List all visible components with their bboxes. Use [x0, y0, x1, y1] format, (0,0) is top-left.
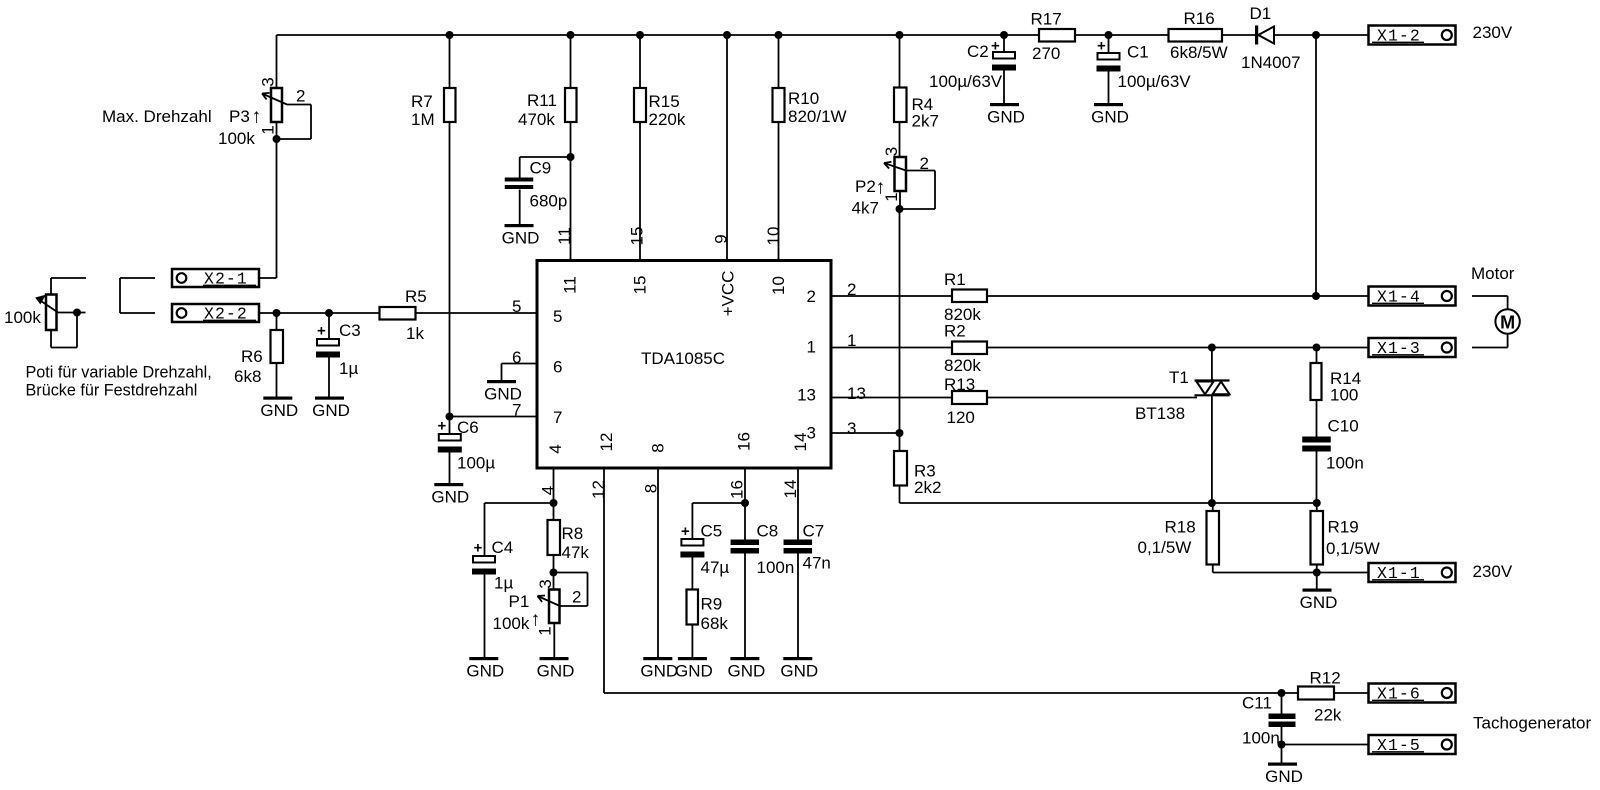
svg-text:C7: C7 [803, 522, 825, 541]
svg-text:R5: R5 [405, 287, 427, 306]
svg-text:GND: GND [466, 662, 504, 681]
svg-text:GND: GND [1300, 593, 1338, 612]
svg-text:6: 6 [553, 358, 562, 377]
svg-text:1k: 1k [406, 324, 424, 343]
svg-text:820/1W: 820/1W [788, 107, 847, 126]
svg-text:470k: 470k [518, 110, 555, 129]
svg-text:C5: C5 [701, 522, 723, 541]
svg-text:R18: R18 [1165, 518, 1196, 537]
svg-text:15: 15 [631, 276, 650, 295]
svg-text:+: + [438, 418, 447, 435]
svg-text:13: 13 [847, 384, 866, 403]
svg-text:R11: R11 [527, 91, 557, 110]
svg-text:C9: C9 [530, 159, 552, 178]
svg-text:GND: GND [502, 229, 540, 248]
svg-text:1: 1 [807, 338, 816, 357]
svg-text:↑: ↑ [252, 106, 262, 128]
svg-text:3: 3 [882, 147, 901, 156]
svg-text:7: 7 [553, 408, 562, 427]
svg-text:C1: C1 [1127, 43, 1149, 62]
svg-text:230V: 230V [1473, 562, 1513, 581]
svg-text:GND: GND [640, 662, 678, 681]
svg-text:11: 11 [555, 227, 574, 245]
svg-text:R2: R2 [944, 322, 966, 341]
svg-text:220k: 220k [649, 110, 686, 129]
svg-text:3: 3 [536, 579, 555, 588]
svg-text:R8: R8 [562, 524, 584, 543]
svg-text:C3: C3 [339, 321, 361, 340]
svg-text:C10: C10 [1328, 417, 1359, 436]
svg-text:GND: GND [312, 401, 350, 420]
svg-text:16: 16 [735, 432, 754, 451]
svg-text:+: + [317, 323, 326, 340]
svg-text:X2-1: X2-1 [204, 270, 248, 289]
svg-text:R1: R1 [944, 270, 966, 289]
svg-text:14: 14 [791, 433, 810, 452]
svg-text:120: 120 [947, 408, 975, 427]
svg-text:2: 2 [296, 87, 305, 106]
svg-text:TDA1085C: TDA1085C [641, 349, 725, 368]
svg-text:GND: GND [537, 662, 575, 681]
svg-text:7: 7 [512, 401, 521, 420]
svg-text:100k: 100k [493, 614, 530, 633]
svg-text:+: + [1097, 38, 1106, 55]
svg-text:GND: GND [728, 662, 766, 681]
svg-text:Tachogenerator: Tachogenerator [1473, 714, 1591, 733]
svg-text:+VCC: +VCC [719, 271, 738, 317]
svg-text:GND: GND [431, 488, 469, 507]
svg-text:5: 5 [553, 307, 562, 326]
svg-text:X1-6: X1-6 [1377, 685, 1421, 704]
svg-text:3: 3 [259, 77, 278, 86]
svg-text:100: 100 [1330, 386, 1358, 405]
svg-text:820k: 820k [944, 356, 981, 375]
svg-text:2: 2 [847, 280, 856, 299]
svg-text:T1: T1 [1169, 368, 1189, 387]
svg-text:M: M [1500, 313, 1515, 333]
svg-text:X1-4: X1-4 [1377, 288, 1421, 307]
svg-text:Poti für variable Drehzahl,: Poti für variable Drehzahl, [26, 364, 212, 382]
svg-text:C6: C6 [457, 418, 479, 437]
svg-text:R16: R16 [1184, 9, 1215, 28]
svg-text:X1-5: X1-5 [1377, 736, 1421, 755]
svg-text:X1-2: X1-2 [1377, 27, 1421, 46]
svg-text:16: 16 [728, 480, 747, 499]
svg-text:1: 1 [882, 192, 901, 201]
svg-text:Motor: Motor [1471, 264, 1515, 283]
svg-text:+: + [681, 523, 690, 540]
svg-text:680p: 680p [530, 192, 568, 211]
svg-text:R19: R19 [1328, 518, 1359, 537]
svg-text:13: 13 [797, 386, 816, 405]
svg-text:GND: GND [675, 662, 713, 681]
svg-text:12: 12 [597, 433, 616, 452]
svg-text:47n: 47n [803, 554, 831, 573]
svg-text:R17: R17 [1031, 10, 1062, 29]
svg-text:GND: GND [260, 401, 298, 420]
svg-text:BT138: BT138 [1135, 404, 1185, 423]
svg-text:1µ: 1µ [339, 359, 358, 378]
svg-text:8: 8 [649, 443, 668, 452]
svg-text:P3: P3 [229, 107, 250, 126]
svg-text:GND: GND [780, 662, 818, 681]
svg-text:1: 1 [536, 626, 555, 635]
svg-text:Max. Drehzahl: Max. Drehzahl [102, 107, 212, 126]
svg-text:6: 6 [512, 348, 521, 367]
svg-text:P2: P2 [855, 177, 876, 196]
svg-text:1N4007: 1N4007 [1241, 53, 1301, 72]
svg-text:D1: D1 [1250, 4, 1272, 23]
svg-text:X2-2: X2-2 [204, 305, 248, 324]
svg-text:4: 4 [546, 444, 565, 453]
svg-text:100µ: 100µ [457, 454, 495, 473]
svg-text:R6: R6 [241, 347, 263, 366]
svg-text:12: 12 [589, 480, 608, 499]
svg-text:100k: 100k [4, 308, 41, 327]
svg-text:2: 2 [807, 287, 816, 306]
svg-text:Brücke für Festdrehzahl: Brücke für Festdrehzahl [26, 382, 198, 400]
svg-text:11: 11 [561, 276, 580, 294]
svg-text:R10: R10 [788, 89, 819, 108]
svg-text:1µ: 1µ [494, 574, 513, 593]
svg-text:15: 15 [628, 227, 647, 246]
svg-text:4k7: 4k7 [852, 199, 879, 218]
svg-text:9: 9 [712, 234, 731, 243]
svg-text:2: 2 [572, 588, 581, 607]
svg-text:R9: R9 [701, 595, 723, 614]
svg-text:R13: R13 [944, 375, 975, 394]
svg-text:2k2: 2k2 [914, 478, 941, 497]
svg-text:68k: 68k [701, 614, 729, 633]
svg-text:2k7: 2k7 [912, 112, 939, 131]
svg-text:10: 10 [769, 276, 788, 295]
svg-text:GND: GND [1265, 767, 1303, 785]
svg-text:100µ/63V: 100µ/63V [929, 72, 1003, 91]
svg-text:8: 8 [642, 484, 661, 493]
svg-text:C8: C8 [757, 522, 779, 541]
svg-text:R12: R12 [1310, 669, 1341, 688]
svg-text:R15: R15 [649, 92, 680, 111]
svg-text:C2: C2 [967, 42, 989, 61]
svg-text:C11: C11 [1242, 694, 1272, 713]
svg-text:100n: 100n [757, 558, 795, 577]
svg-text:1M: 1M [411, 110, 435, 129]
svg-text:22k: 22k [1314, 706, 1342, 725]
svg-text:5: 5 [512, 297, 521, 316]
svg-text:100µ/63V: 100µ/63V [1118, 72, 1192, 91]
svg-text:C4: C4 [492, 538, 514, 557]
svg-text:GND: GND [987, 108, 1025, 127]
svg-text:P1: P1 [509, 592, 530, 611]
svg-text:2: 2 [920, 154, 929, 173]
svg-text:GND: GND [1091, 108, 1129, 127]
svg-text:47µ: 47µ [701, 558, 730, 577]
svg-text:14: 14 [781, 480, 800, 499]
svg-text:47k: 47k [562, 543, 590, 562]
svg-text:+: + [991, 38, 1000, 55]
svg-text:100k: 100k [218, 129, 255, 148]
svg-text:1: 1 [259, 125, 278, 134]
svg-text:100n: 100n [1242, 729, 1280, 748]
svg-text:3: 3 [847, 419, 856, 438]
svg-text:10: 10 [764, 227, 783, 246]
svg-text:X1-1: X1-1 [1377, 564, 1421, 583]
svg-text:6k8/5W: 6k8/5W [1170, 43, 1228, 62]
svg-text:100n: 100n [1326, 454, 1364, 473]
svg-text:6k8: 6k8 [234, 367, 261, 386]
svg-text:0,1/5W: 0,1/5W [1138, 538, 1192, 557]
svg-text:0,1/5W: 0,1/5W [1326, 539, 1380, 558]
svg-text:X1-3: X1-3 [1377, 339, 1421, 358]
svg-text:+: + [474, 540, 483, 557]
svg-text:4: 4 [539, 486, 558, 495]
svg-text:270: 270 [1032, 44, 1060, 63]
svg-text:230V: 230V [1473, 23, 1513, 42]
svg-text:R7: R7 [411, 92, 433, 111]
svg-text:1: 1 [847, 331, 856, 350]
